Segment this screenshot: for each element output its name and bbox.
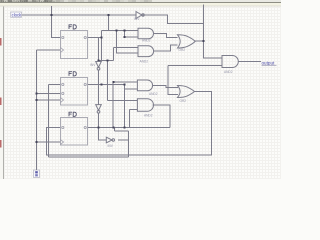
svg-text:AND2: AND2 [142, 39, 151, 43]
svg-text:INV: INV [134, 17, 140, 21]
svg-text:OR2: OR2 [180, 99, 187, 103]
svg-text:output: output [262, 60, 275, 65]
svg-text:INV: INV [108, 144, 114, 148]
svg-text:clock: clock [12, 12, 22, 17]
svg-text:AND2: AND2 [140, 60, 149, 64]
svg-text:AND2: AND2 [149, 92, 158, 96]
svg-text:OR2: OR2 [179, 48, 186, 52]
svg-text:AND2: AND2 [224, 70, 233, 74]
svg-text:AND2: AND2 [144, 114, 153, 118]
svg-text:INV: INV [90, 63, 96, 67]
